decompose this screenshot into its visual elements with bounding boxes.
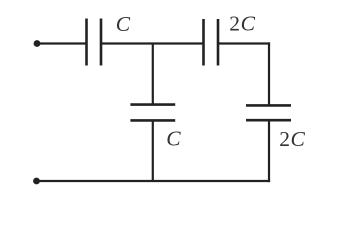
wire: node A down to C3 top plate (middle branch) xyxy=(152,44,154,105)
wire: C3 bottom plate to bottom rail xyxy=(152,120,154,181)
terminal dot (top-left input) xyxy=(34,40,41,47)
wire: C2 right plate to top-right corner xyxy=(218,42,270,44)
wire: right branch, corner down to C4 top plate xyxy=(268,42,270,105)
svg-text:2C: 2C xyxy=(229,12,255,36)
terminal dot (bottom-left input) xyxy=(33,178,40,185)
svg-text:C: C xyxy=(116,12,131,36)
wire: C4 bottom plate down to bottom rail xyxy=(268,120,270,182)
wire: C1 right plate through node A to C2 left plate xyxy=(101,42,204,44)
wire: bottom rail xyxy=(37,180,271,182)
wire: top terminal to C1 left plate xyxy=(37,42,87,44)
capacitor C2 (series, value 2C) xyxy=(204,19,219,66)
capacitor C3 (shunt middle, value C) xyxy=(130,105,175,121)
svg-text:2C: 2C xyxy=(279,127,305,151)
capacitor C1 (series, value C) xyxy=(87,19,102,66)
svg-text:C: C xyxy=(166,127,181,151)
capacitor C4 (shunt right, value 2C) xyxy=(246,105,291,120)
